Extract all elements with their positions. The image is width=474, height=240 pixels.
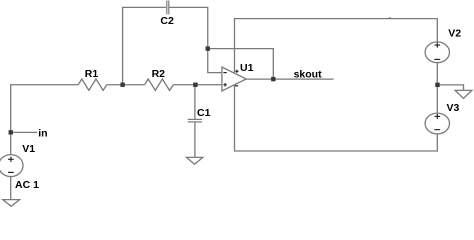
wire: [173, 84, 222, 86]
svg-text:U1: U1: [240, 62, 254, 74]
V3 plus: [435, 114, 441, 119]
resistor R2: [145, 79, 174, 90]
wire: [208, 49, 274, 80]
svg-text:AC 1: AC 1: [15, 179, 39, 191]
wire: [194, 122, 196, 157]
capacitor C2: [167, 1, 169, 15]
svg-text:in: in: [38, 128, 47, 140]
wire: [169, 7, 222, 72]
ground: [455, 90, 472, 98]
wire: [246, 78, 333, 80]
svg-text:R2: R2: [152, 68, 166, 80]
op-amp pin V- marker: [235, 85, 238, 87]
node junction in: [9, 130, 13, 134]
svg-text:V2: V2: [448, 27, 461, 39]
ground: [3, 200, 20, 207]
wire: [235, 85, 438, 151]
svg-text:V3: V3: [447, 102, 460, 114]
wire: [436, 63, 438, 113]
node junction output: [271, 77, 275, 81]
op-amp pin minus input: [223, 72, 226, 74]
capacitor C1: [188, 119, 202, 122]
svg-text:V1: V1: [22, 143, 35, 155]
node junction feedback: [206, 46, 210, 50]
op-amp U1: [222, 67, 246, 91]
voltage source V1: [0, 155, 23, 177]
resistor R1: [78, 79, 107, 90]
ground: [186, 157, 202, 164]
V2 minus: [434, 58, 440, 60]
V2 plus: [435, 43, 441, 48]
voltage source V3: [425, 113, 449, 134]
node junction V2-V3: [435, 83, 439, 87]
svg-text:C2: C2: [160, 15, 174, 27]
wire: [194, 85, 196, 119]
svg-text:skout: skout: [294, 69, 323, 81]
wire: [10, 177, 12, 200]
wire: [11, 131, 37, 133]
wire: [123, 7, 167, 84]
wire nub: [389, 17, 391, 19]
node junction R1-C2: [120, 83, 124, 87]
V1 plus: [8, 157, 14, 162]
V3 minus: [434, 129, 440, 131]
voltage source V2: [425, 42, 449, 63]
node junction R2-C1: [193, 83, 197, 87]
wire: [438, 85, 464, 90]
wire: [235, 19, 438, 74]
V1 minus: [8, 171, 14, 173]
wire: [11, 85, 79, 155]
op-amp pin V+ marker: [235, 70, 238, 73]
svg-text:C1: C1: [197, 107, 211, 119]
wire: [107, 84, 145, 86]
svg-text:R1: R1: [85, 68, 99, 80]
op-amp pin plus input: [223, 83, 226, 86]
